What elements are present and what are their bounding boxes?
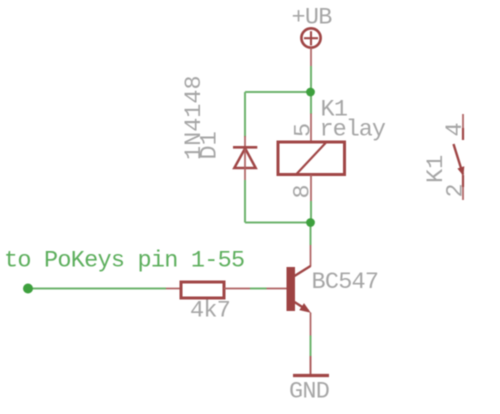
pin number 4 (rotated) <box>442 122 469 136</box>
junction top <box>306 88 315 97</box>
resistor R1 4k7 <box>181 282 224 298</box>
relay contact K1 blade <box>454 144 465 176</box>
relay coil pin 8 stub <box>310 175 312 202</box>
wire resistor to base <box>250 288 267 290</box>
svg-text:2: 2 <box>443 183 470 197</box>
relay contact pin 2 lead <box>462 175 464 200</box>
label 1N4148 (rotated) <box>181 75 208 160</box>
label 4k7 <box>190 298 230 325</box>
relay contact pin 4 lead <box>462 114 464 140</box>
emitter pin stub <box>310 313 312 336</box>
svg-text:to PoKeys pin 1-55: to PoKeys pin 1-55 <box>4 248 244 275</box>
wire diode branch down <box>244 92 246 137</box>
ground symbol GND <box>293 356 329 376</box>
wire diode bottom down <box>244 180 246 223</box>
wire junction to diode branch (horizontal) <box>245 91 311 93</box>
pin stub from +UB symbol <box>310 48 312 66</box>
svg-text:8: 8 <box>290 184 317 198</box>
label K1 (coil) <box>321 97 348 124</box>
label BC547 <box>312 269 379 296</box>
net label to PoKeys pin 1-55 <box>4 248 244 275</box>
wire +UB vertical to junction <box>310 66 312 92</box>
svg-text:K1: K1 <box>423 155 450 183</box>
label GND <box>289 379 329 406</box>
pin number 2 (rotated) <box>443 183 470 197</box>
svg-text:D1: D1 <box>197 131 224 159</box>
resistor pin stub left <box>166 288 181 290</box>
svg-text:BC547: BC547 <box>312 269 379 296</box>
label K1 (contact, rotated) <box>423 155 450 183</box>
svg-text:4: 4 <box>442 122 469 136</box>
label D1 (rotated) <box>197 131 224 159</box>
relay coil K1 <box>278 142 345 175</box>
junction bottom <box>306 218 315 227</box>
transistor Q1 BC547 <box>287 266 311 313</box>
svg-text:GND: GND <box>289 379 329 406</box>
base pin stub <box>267 288 287 290</box>
wire junction down to collector <box>310 223 312 246</box>
relay coil pin 5 stub <box>310 114 312 143</box>
wire +UB junction down to relay pin <box>310 92 312 114</box>
resistor pin stub right <box>224 288 250 290</box>
wire emitter to GND <box>310 336 312 357</box>
wire input horizontal <box>28 288 166 290</box>
wire relay pin 8 to junction <box>310 201 312 223</box>
node pin endpoint (left) <box>23 284 33 294</box>
label relay <box>320 117 386 144</box>
svg-text:4k7: 4k7 <box>190 298 230 325</box>
power symbol +UB <box>301 28 320 47</box>
net label +UB <box>292 5 333 32</box>
wire diode branch to junction bottom <box>245 222 311 224</box>
pin number 8 (rotated) <box>290 184 317 198</box>
collector pin stub <box>310 245 312 267</box>
svg-text:5: 5 <box>290 123 317 137</box>
pin number 5 (rotated) <box>290 123 317 137</box>
diode D1 1N4148 <box>233 136 257 180</box>
svg-text:relay: relay <box>320 117 386 144</box>
